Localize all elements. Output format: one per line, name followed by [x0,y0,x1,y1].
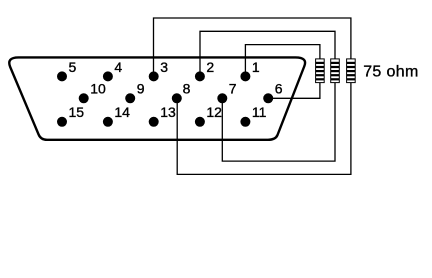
svg-text:11: 11 [252,104,267,120]
svg-text:5: 5 [69,59,77,75]
svg-text:2: 2 [206,59,214,75]
svg-text:6: 6 [275,81,283,97]
svg-text:15: 15 [69,104,85,120]
svg-text:14: 14 [114,104,130,120]
svg-text:9: 9 [137,81,145,97]
svg-text:12: 12 [206,104,222,120]
svg-text:1: 1 [252,59,260,75]
svg-text:10: 10 [90,81,106,97]
svg-text:4: 4 [114,59,122,75]
svg-text:7: 7 [229,81,237,97]
svg-text:3: 3 [160,59,168,75]
svg-text:75 ohm: 75 ohm [363,63,418,80]
svg-text:8: 8 [183,81,191,97]
svg-text:13: 13 [160,104,176,120]
